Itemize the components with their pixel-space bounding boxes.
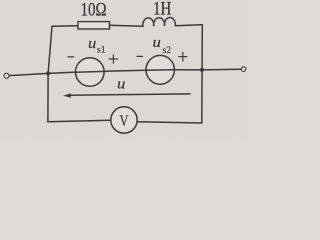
svg-text:1H: 1H: [153, 0, 171, 19]
svg-text:u: u: [88, 36, 97, 52]
svg-text:10Ω: 10Ω: [81, 0, 107, 20]
svg-text:s1: s1: [97, 46, 106, 56]
svg-text:u: u: [117, 77, 126, 93]
svg-text:V: V: [120, 114, 129, 131]
svg-text:u: u: [152, 35, 161, 51]
svg-text:s2: s2: [163, 46, 172, 56]
